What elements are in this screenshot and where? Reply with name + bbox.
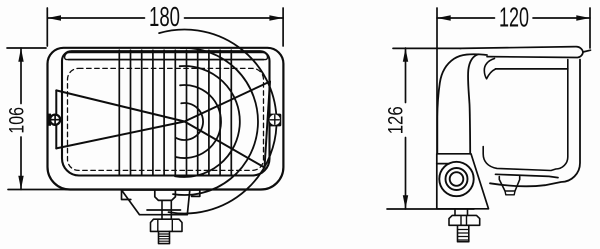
- wedge right edge: [265, 82, 271, 168]
- left screw pad: [47, 114, 61, 126]
- lens outline: [62, 51, 270, 175]
- dim 126: line: [405, 48, 407, 103]
- strap inner edge: [468, 54, 478, 154]
- visor strip seam: [69, 59, 264, 61]
- top cap top line: [460, 47, 583, 58]
- pivot circles: [439, 162, 473, 196]
- fresnel arc r56: [175, 66, 240, 177]
- dashed inner lens rect: [68, 68, 264, 170]
- bolt shaft upper: [162, 200, 171, 219]
- fresnel arc r37: [176, 85, 221, 158]
- housing front hook: [484, 59, 495, 79]
- pedestal right tab: [190, 190, 200, 196]
- keystone notch: [155, 190, 176, 200]
- lens ribs (11 flutes): [119, 50, 231, 175]
- strap outer edge: [437, 54, 487, 154]
- housing top seam line: [496, 68, 568, 70]
- pedestal left tab: [122, 190, 131, 200]
- pedestal step line: [147, 209, 181, 211]
- dim 180: extension lines: [46, 8, 48, 46]
- bolt shaft: [455, 209, 468, 216]
- threaded stud: [159, 231, 170, 243]
- pedestal bracket: [122, 190, 190, 215]
- svg-text:126: 126: [384, 106, 408, 134]
- fresnel arc r93: [159, 30, 276, 214]
- connector tab: [499, 177, 519, 192]
- dim 126: extension lines: [393, 47, 461, 49]
- fresnel arc r19: [176, 103, 203, 140]
- fresnel arc r74: [173, 48, 258, 195]
- svg-text:180: 180: [149, 1, 180, 32]
- beam wedge line: left-top to right-bottom: [56, 90, 264, 167]
- right screw pad: [269, 114, 282, 127]
- bracket step line: [437, 163, 450, 165]
- hex nut: [151, 219, 183, 231]
- dim 120: extension lines: [436, 8, 438, 153]
- dim 180: line: [47, 17, 144, 19]
- dim 106: extension lines: [7, 47, 46, 49]
- hex nut side: [449, 215, 480, 225]
- housing outer shell: [48, 48, 284, 190]
- threaded stud side: [458, 225, 469, 241]
- beam wedge line: left-bottom to right-top: [56, 82, 270, 149]
- wedge left edge: [55, 90, 57, 148]
- back panel outer: [490, 60, 580, 187]
- svg-text:120: 120: [499, 2, 529, 33]
- dim 120: line: [437, 17, 495, 19]
- dim 106: line: [20, 48, 22, 104]
- pivot bracket: [437, 154, 489, 209]
- mid bottom seam: [496, 174, 559, 177]
- svg-text:106: 106: [4, 107, 28, 134]
- visor strip inner stadium: [65, 53, 268, 60]
- back panel inner outline: [483, 60, 568, 171]
